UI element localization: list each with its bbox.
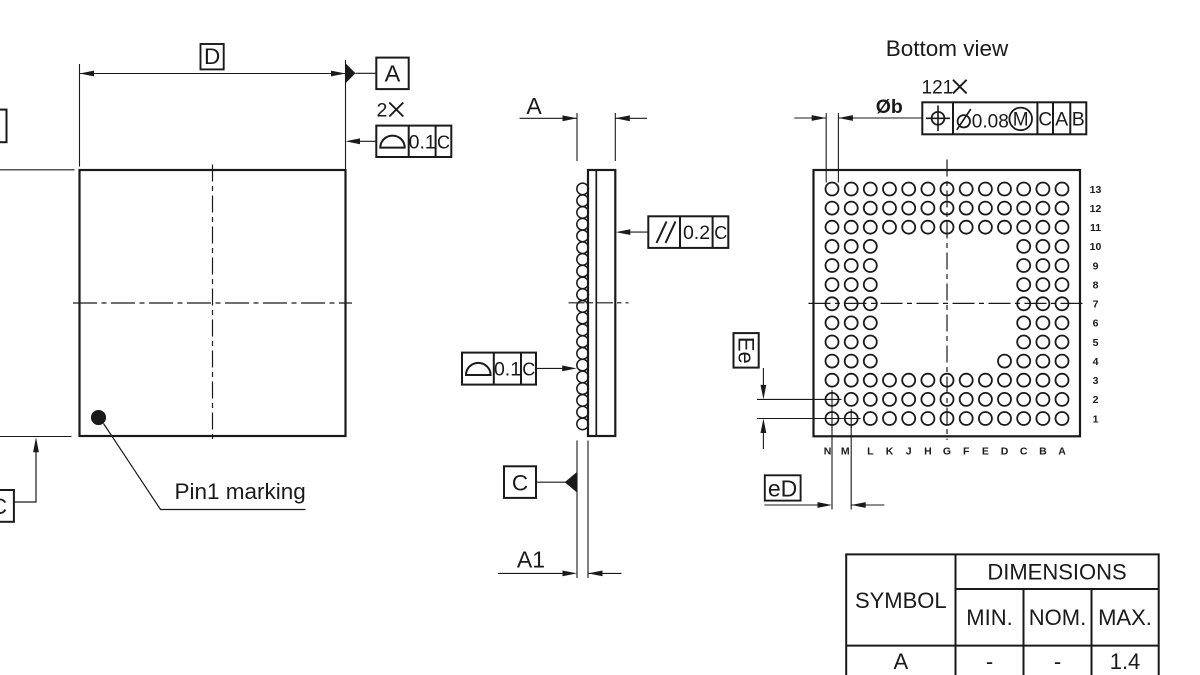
svg-text:E: E	[982, 446, 989, 458]
svg-text:NOM.: NOM.	[1029, 605, 1086, 630]
svg-text:C: C	[522, 360, 535, 380]
svg-text:8: 8	[1093, 279, 1099, 291]
svg-text:B: B	[1039, 446, 1047, 458]
side view package body	[588, 170, 615, 436]
datum C leader and filled triangle	[536, 481, 566, 483]
dimension eE extension lines	[757, 398, 823, 400]
dimension A1 line with arrows	[498, 572, 563, 574]
profile frame arrow to balls	[536, 367, 572, 369]
seating plane extension lines	[576, 441, 578, 579]
svg-text:M: M	[1013, 110, 1029, 131]
svg-text:B: B	[1072, 108, 1085, 130]
position symbol	[932, 112, 945, 125]
svg-text:0.1: 0.1	[409, 131, 436, 153]
svg-text:SYMBOL: SYMBOL	[855, 588, 947, 613]
pin1 marking dot	[92, 411, 106, 425]
svg-text:Bottom view: Bottom view	[886, 36, 1009, 61]
profile tolerance frame 2X: arrow to edge	[350, 140, 377, 142]
svg-text:N: N	[824, 446, 832, 458]
svg-text:13: 13	[1090, 184, 1102, 196]
svg-text:1: 1	[1093, 413, 1099, 425]
bottom view package outline	[814, 170, 1081, 436]
datum A leader	[356, 72, 377, 74]
dimension D line with arrows	[80, 73, 345, 75]
svg-text:Pin1 marking: Pin1 marking	[175, 479, 306, 504]
svg-text:C: C	[714, 223, 727, 243]
dimension D extension line left	[79, 64, 81, 167]
svg-text:G: G	[943, 446, 951, 458]
svg-text:C: C	[437, 132, 450, 152]
svg-text:K: K	[886, 446, 894, 458]
dimension eD label box	[765, 475, 801, 500]
pin1 leader line	[104, 424, 306, 510]
dimension eD extension lines	[831, 426, 833, 510]
dimensions table outer border	[846, 554, 1158, 675]
svg-text:-: -	[986, 649, 993, 674]
svg-text:MAX.: MAX.	[1098, 605, 1152, 630]
svg-text:11: 11	[1090, 222, 1101, 234]
top view horizontal centerline	[73, 302, 352, 304]
svg-text:F: F	[963, 446, 970, 458]
svg-text:0.1: 0.1	[494, 359, 521, 381]
datum C label box (side view)	[504, 466, 536, 498]
dimension D extension line right	[345, 60, 347, 170]
profile of surface symbol	[380, 136, 404, 148]
svg-text:-: -	[1054, 649, 1061, 674]
dimension A line with arrows	[520, 117, 577, 119]
top view package body outline	[80, 170, 346, 436]
dimension Ob line with arrows	[794, 117, 826, 119]
side view solder balls column	[577, 183, 589, 195]
svg-text:Øb: Øb	[876, 96, 903, 118]
profile frame (side view) box	[462, 353, 536, 385]
position tolerance frame box	[922, 102, 1086, 134]
svg-text:2: 2	[377, 100, 388, 122]
svg-text:DIMENSIONS: DIMENSIONS	[987, 560, 1126, 585]
diameter symbol	[958, 115, 970, 127]
parallelism tolerance frame	[648, 216, 728, 248]
svg-text:9: 9	[1093, 260, 1099, 272]
table row lines	[956, 588, 1159, 590]
svg-text:0.08: 0.08	[972, 112, 1009, 133]
parallelism symbol	[657, 222, 667, 244]
datum C arrow (top view)	[33, 437, 39, 452]
dimension eE label box rotated	[734, 333, 759, 368]
svg-text:1.4: 1.4	[1110, 649, 1141, 674]
svg-text:12: 12	[1090, 203, 1102, 215]
dimension E label box (cut off)	[0, 110, 7, 143]
bottom view vertical centerline	[946, 160, 948, 441]
dimension Ob extension lines tangent to ball N13	[825, 113, 827, 183]
svg-text:A: A	[893, 649, 908, 674]
svg-text:J: J	[906, 446, 912, 458]
bottom edge extension line	[0, 436, 72, 438]
datum A label box	[376, 58, 408, 90]
svg-text:5: 5	[1093, 337, 1099, 349]
profile of surface symbol (side)	[466, 363, 491, 375]
svg-text:D: D	[204, 44, 220, 69]
dimension eD line with arrows	[764, 504, 827, 506]
svg-text:0.2: 0.2	[683, 222, 710, 244]
svg-text:A: A	[1055, 108, 1068, 130]
svg-text:eD: eD	[768, 475, 797, 501]
svg-text:L: L	[867, 446, 874, 458]
svg-text:3: 3	[1093, 375, 1099, 387]
dimension A extension lines	[576, 113, 578, 161]
svg-text:C: C	[1038, 109, 1052, 130]
svg-text:7: 7	[1093, 299, 1099, 311]
maximum material condition symbol	[1009, 108, 1032, 131]
parallelism frame arrow	[620, 231, 648, 233]
svg-text:D: D	[1001, 446, 1009, 458]
bottom view horizontal centerline	[809, 302, 1085, 304]
svg-text:6: 6	[1093, 318, 1099, 330]
svg-text:H: H	[924, 446, 932, 458]
svg-text:Ee: Ee	[734, 337, 759, 364]
svg-text:C: C	[512, 470, 528, 495]
center cross marks on balls N1 M1 N2	[823, 418, 842, 420]
svg-text:A: A	[1058, 446, 1066, 458]
dimension E extension line top (cut off)	[0, 169, 75, 171]
ball grid array 121 balls	[826, 183, 839, 196]
svg-text:2: 2	[1093, 394, 1099, 406]
datum A triangle	[346, 63, 356, 83]
side view horizontal centerline	[569, 302, 629, 304]
side view substrate line	[595, 171, 597, 435]
svg-text:MIN.: MIN.	[966, 605, 1012, 630]
svg-text:A: A	[526, 93, 542, 119]
svg-text:A: A	[385, 60, 401, 86]
svg-text:C: C	[0, 494, 7, 519]
profile tolerance frame 2X box	[376, 126, 451, 157]
svg-text:A1: A1	[517, 546, 545, 572]
svg-text:121: 121	[922, 78, 954, 99]
svg-text:10: 10	[1090, 241, 1102, 253]
datum C label box (cut off)	[0, 490, 14, 522]
svg-text:4: 4	[1093, 356, 1099, 368]
top view vertical centerline	[212, 165, 214, 442]
dimension eE arrows	[762, 368, 764, 394]
table column lines	[955, 554, 957, 675]
svg-text:M: M	[841, 446, 850, 458]
svg-text:C: C	[1020, 446, 1028, 458]
dimension D label box	[201, 44, 224, 69]
